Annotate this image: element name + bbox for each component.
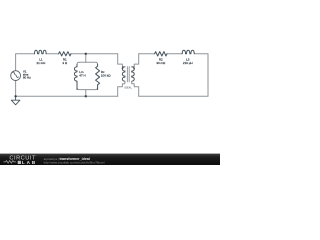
logo resistor glyph bbox=[3, 161, 16, 164]
transformer T1 right pin bottom bbox=[132, 81, 139, 96]
svg-text:210 μH: 210 μH bbox=[183, 61, 193, 65]
wire R2 to L3 bbox=[167, 53, 182, 55]
wire secondary bottom bbox=[139, 95, 208, 97]
svg-text:100 kΩ: 100 kΩ bbox=[101, 73, 111, 77]
svg-text:60 Hz: 60 Hz bbox=[23, 76, 31, 80]
wire R1 to transformer bbox=[71, 53, 118, 55]
svg-text:LAB: LAB bbox=[22, 160, 37, 165]
ground bbox=[11, 96, 20, 105]
svg-text:21 mH: 21 mH bbox=[36, 61, 45, 65]
transformer T1 left winding bbox=[122, 67, 125, 81]
transformer polarity dot right bbox=[133, 68, 135, 70]
wire shunt rail bottom bbox=[77, 87, 98, 89]
resistor R2 bbox=[155, 52, 167, 56]
voltage source V1 bbox=[11, 71, 21, 81]
junction dot node B bottom bbox=[85, 95, 87, 97]
resistor Rc bbox=[96, 64, 100, 89]
transformer polarity dot left bbox=[122, 68, 124, 70]
transformer T1 left pin bottom bbox=[118, 81, 125, 96]
wire secondary top bbox=[139, 53, 155, 55]
svg-text:IDEAL: IDEAL bbox=[124, 85, 132, 89]
svg-text:3 Ω: 3 Ω bbox=[62, 61, 68, 65]
wire shunt stub top bbox=[85, 54, 87, 62]
wire secondary right vertical bbox=[207, 54, 209, 97]
wire primary top left bbox=[16, 54, 35, 71]
wire L3 to right edge bbox=[194, 53, 208, 55]
wire shunt stub bottom bbox=[85, 90, 87, 97]
wire primary left vertical below source bbox=[15, 80, 17, 96]
logo LAB box bbox=[18, 161, 21, 164]
transformer core bbox=[127, 67, 129, 82]
transformer T1 right winding bbox=[132, 67, 135, 81]
svg-text:http://www.circuitlab.com/circ: http://www.circuitlab.com/circuit/c6v38v… bbox=[44, 161, 105, 165]
inductor L3 bbox=[182, 50, 194, 54]
wire primary bottom bbox=[16, 95, 118, 97]
transformer T1 right pin top bbox=[134, 54, 139, 67]
junction dot node A top bbox=[85, 53, 87, 55]
wire shunt rail top bbox=[77, 62, 98, 64]
svg-text:30 mΩ: 30 mΩ bbox=[156, 61, 166, 65]
resistor R1 bbox=[59, 52, 71, 56]
wire L1 to R1 bbox=[46, 53, 59, 55]
junction dot ground node bbox=[14, 95, 16, 97]
inductor L1 bbox=[35, 50, 47, 54]
transformer T1 left pin top bbox=[118, 54, 123, 67]
svg-text:47 H: 47 H bbox=[79, 73, 85, 77]
inductor Lm bbox=[74, 64, 77, 89]
